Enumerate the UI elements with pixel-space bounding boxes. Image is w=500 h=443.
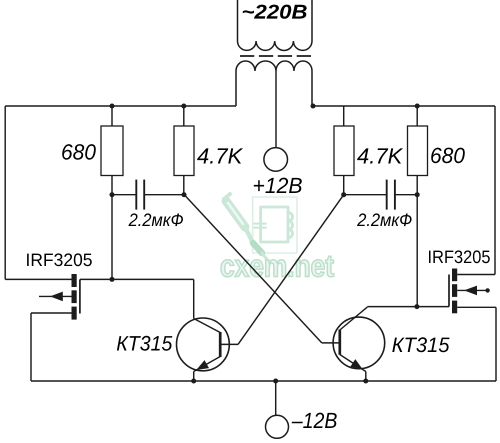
- node 4.7KR/C2: [341, 192, 346, 197]
- label IRF3205 right: [429, 250, 490, 263]
- wire diagonal 4.7KL node to Q2 base: [184, 195, 321, 343]
- label 2.2uF left: [129, 213, 184, 226]
- VT2 body terminal dot: [485, 288, 489, 292]
- label 680 right: [431, 148, 465, 164]
- Q2 collector stroke: [340, 307, 368, 330]
- terminal +12V circle: [264, 148, 288, 172]
- junction top rail / 4.7KL: [181, 104, 186, 109]
- label KT315 left: [117, 336, 172, 351]
- junction top rail / 680R: [415, 104, 420, 109]
- capacitor C2 2.2uF (right): [386, 180, 388, 210]
- junction Q1 emitter / rail: [191, 379, 196, 384]
- junction VT2 gate node: [414, 304, 419, 309]
- transformer T1 secondary winding: [236, 61, 312, 106]
- junction VT1 gate node: [110, 277, 115, 282]
- resistor 4.7K (left): [174, 126, 194, 176]
- Q1 emitter arrow: [196, 360, 209, 370]
- mosfet VT2 IRF3205 (right) channel bars: [452, 269, 457, 282]
- wire C1 right plate to node: [144, 194, 184, 196]
- wire Q2 collector to VT2 gate: [367, 306, 449, 308]
- wire 680R node down to VT2 gate node: [416, 195, 418, 307]
- wire center tap to +12V: [275, 71, 277, 148]
- label 4.7K right: [357, 148, 403, 163]
- label 680 left: [62, 144, 96, 160]
- wire to -12V: [275, 381, 277, 416]
- transformer T1 primary winding: [238, 0, 313, 50]
- Q2 emitter stroke: [340, 355, 366, 372]
- wire VT2 source down right edge: [495, 307, 497, 381]
- label 4.7K left: [197, 148, 243, 163]
- node 680R/C2: [415, 192, 420, 197]
- wire 4.7KL bottom: [183, 176, 185, 195]
- resistor 680 (left): [101, 126, 123, 176]
- Q1 base bar: [219, 332, 222, 357]
- Q2 emitter arrow: [350, 359, 363, 369]
- wire VT1 drain: [5, 278, 71, 280]
- resistor 680 (right): [408, 126, 428, 176]
- wire 4.7KR top: [343, 106, 345, 126]
- wire VT1 source down: [30, 313, 32, 381]
- wire node to C2 left plate: [344, 194, 387, 196]
- Q2 base bar: [338, 330, 341, 355]
- wire 680R top: [416, 106, 418, 126]
- label ~220V: [243, 5, 307, 19]
- wire 680R bottom: [416, 176, 418, 195]
- wire down to Q1 collector: [193, 279, 195, 318]
- wire top rail right: [312, 105, 495, 107]
- junction top rail / 680L: [110, 104, 115, 109]
- wire node to C1 left plate: [112, 194, 136, 196]
- wire gate node to Q1 collector: [112, 278, 194, 280]
- label -12V: [292, 413, 337, 428]
- wire 680L top: [111, 106, 113, 126]
- label +12V: [254, 178, 302, 193]
- wire Q1 emitter down: [193, 372, 195, 382]
- transistor Q2 KT315 (right): [333, 317, 385, 369]
- watermark cxem.net logo: [224, 194, 297, 261]
- mosfet VT1 gate plate: [79, 279, 81, 313]
- wire C2 right plate to node: [395, 194, 417, 196]
- capacitor C1 2.2uF (left): [135, 180, 137, 210]
- wire left edge: [4, 106, 6, 279]
- wire Q1 base: [220, 343, 238, 345]
- label 2.2uF right: [357, 213, 412, 226]
- wire VT1 source: [31, 312, 72, 314]
- mosfet VT1 body arrow: [39, 295, 72, 297]
- terminal -12V circle: [266, 415, 289, 438]
- mosfet VT1 IRF3205 (left) channel bars: [72, 274, 77, 287]
- wire top rail left: [5, 105, 236, 107]
- transistor Q1 KT315 (left): [177, 318, 230, 371]
- wire Q2 base: [322, 342, 340, 344]
- mosfet VT2 body arrow: [457, 289, 485, 291]
- wire diagonal 4.7KR node to Q1 base: [238, 195, 344, 345]
- label KT315 right: [392, 337, 449, 352]
- wire right edge upper: [494, 106, 496, 275]
- wire VT2 drain: [457, 274, 495, 276]
- Q1 emitter stroke: [194, 357, 221, 372]
- wire VT2 source: [457, 306, 496, 308]
- wire Q2 emitter down: [365, 372, 367, 382]
- label IRF3205 left: [27, 253, 92, 266]
- wire 4.7KR bottom: [343, 176, 345, 195]
- wire VT1 gate to node: [80, 278, 112, 280]
- wire bottom rail: [31, 380, 496, 382]
- wire 680L bottom: [111, 176, 113, 195]
- junction secondary right terminal: [311, 104, 316, 109]
- Q1 collector stroke: [194, 319, 221, 333]
- resistor 4.7K (right): [334, 126, 354, 176]
- transformer T1 core (dashed): [240, 55, 311, 57]
- wire 680L node down to VT1 gate node: [111, 195, 113, 280]
- wire 4.7KL top: [183, 106, 185, 126]
- node 4.7KL/C1: [182, 192, 187, 197]
- node 680L/C1: [110, 192, 115, 197]
- watermark cxem.net text: [221, 256, 334, 277]
- junction -12V / rail: [273, 379, 278, 384]
- junction Q2 emitter / rail: [363, 379, 368, 384]
- mosfet VT2 gate plate: [448, 275, 450, 307]
